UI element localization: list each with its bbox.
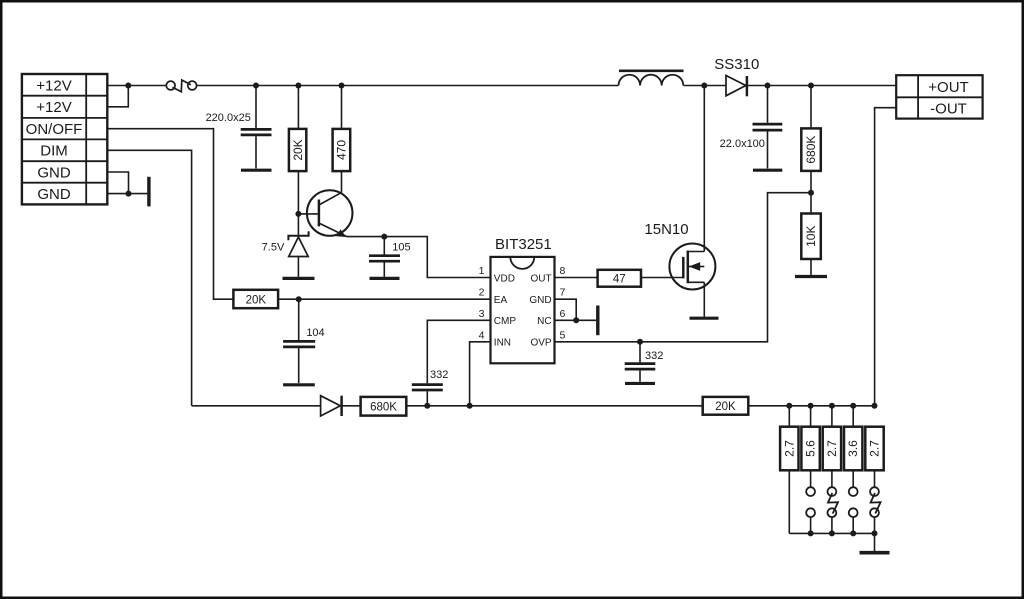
svg-text:4: 4 [479,329,485,341]
capacitor C1 220.0x25 [241,86,272,169]
svg-text:6: 6 [560,308,566,320]
node C7 junction [424,403,430,409]
svg-text:47: 47 [613,274,626,286]
resistor R13 3.6 [844,406,862,487]
wire ON/OFF to R4 [107,129,233,300]
node divider junction [808,190,814,196]
resistor R2 20K [289,86,306,214]
resistor R3 470 [333,86,351,193]
svg-text:8: 8 [560,265,566,277]
svg-text:DIM: DIM [40,143,68,160]
wire INN pin 4 [470,342,491,406]
node GND junction [126,191,132,197]
J1 pin labels [26,77,83,203]
wire bank bottom bus [789,532,874,534]
wire OUT pin 8 to gate [555,277,598,279]
svg-text:680K: 680K [804,136,818,164]
op-amp U1 BIT3251 body [491,236,555,363]
capacitor C5 22.0x100 [753,86,783,169]
svg-text:GND: GND [37,164,71,181]
U1 pin numbers right [560,265,566,341]
svg-text:15N10: 15N10 [644,221,688,238]
ground C5 [753,169,782,172]
node OVP junction [637,339,643,345]
diode D2 SS310 [704,76,896,97]
wire bottom net right [748,405,874,407]
capacitor C3 105 [369,237,400,277]
svg-text:7: 7 [560,287,566,299]
resistor R12 2.7 [823,406,841,487]
svg-text:2.7: 2.7 [868,440,882,457]
ground bank [860,551,890,555]
ground C1 [241,169,272,172]
svg-text:105: 105 [392,242,410,254]
svg-text:OUT: OUT [530,273,551,284]
connector J2 output [896,75,982,118]
node top rail R6 [808,83,814,89]
resistor R11 5.6 [801,406,819,487]
svg-text:SS310: SS310 [714,56,759,73]
svg-text:5: 5 [560,329,566,341]
wire bottom net left [192,405,321,407]
svg-text:+OUT: +OUT [928,79,968,96]
node top rail R3 [339,83,345,89]
wire +12V second pin link [107,86,128,107]
svg-text:3.6: 3.6 [846,440,860,457]
svg-text:BIT3251: BIT3251 [495,236,552,253]
jumper J6 closed [870,487,881,517]
svg-text:+12V: +12V [36,77,71,94]
node NC junction [573,317,579,323]
svg-text:20K: 20K [715,401,736,413]
node Q1 base junction [295,211,301,217]
ground R7 [795,275,827,278]
connector J1 input [22,74,107,204]
jumper J3 open [806,487,815,517]
resistor R6 680K [801,86,821,214]
svg-text:INN: INN [494,338,511,349]
svg-text:1: 1 [479,265,485,277]
U1 pin labels left [494,273,517,348]
ground C6 [625,382,655,385]
jumper J5 open [849,487,858,517]
resistor R5 47 [598,270,641,287]
transistor Q1 [298,190,352,237]
svg-text:10K: 10K [804,226,818,247]
node top rail C1 [253,83,259,89]
node C5 junction [765,83,771,89]
resistor R10 2.7 [780,406,798,534]
wire bank ground stub [874,533,876,551]
svg-text:20K: 20K [246,295,267,307]
wire +12V top rail [107,85,704,87]
svg-text:2: 2 [479,287,485,299]
wire DIM to bottom net [107,150,191,405]
inductor L1 [619,71,684,86]
wire bottom net middle [406,405,702,407]
node bank junctions bottom [808,530,878,536]
node bank junctions top [786,403,877,409]
svg-text:680K: 680K [370,402,397,414]
svg-text:CMP: CMP [494,316,517,327]
node drain junction [701,83,707,89]
svg-text:332: 332 [645,350,663,362]
svg-text:VDD: VDD [494,273,515,284]
ground C3 [370,277,400,280]
capacitor C6 332 [625,342,656,382]
node EA junction [296,296,302,302]
wire Q1 emitter to VDD [347,237,491,278]
svg-text:20K: 20K [291,139,305,160]
svg-text:470: 470 [335,140,349,160]
zener D1 7.5V [288,214,308,277]
node C3 junction [381,234,387,240]
wire OVP pin 5 [555,193,812,342]
ground D1 [283,277,315,280]
node +12V junction [125,83,131,89]
svg-text:2.7: 2.7 [782,440,796,457]
wire CMP pin 3 to C7 [427,320,490,383]
node INN junction [467,403,473,409]
U1 pin numbers left [479,265,485,341]
svg-text:+12V: +12V [36,99,71,116]
fuse F1 [166,80,196,92]
resistor R9 20K [703,397,749,415]
ground C4 [283,383,315,386]
svg-text:22.0x100: 22.0x100 [720,138,765,150]
resistor R7 10K [801,214,821,275]
svg-text:OVP: OVP [530,338,551,349]
svg-text:GND: GND [529,295,551,306]
wire GND pin 7 [555,299,577,320]
capacitor C4 104 [283,299,315,383]
svg-text:NC: NC [537,316,551,327]
wire EA pin 2 [278,298,490,300]
resistor R14 2.7 [865,427,883,488]
capacitor C7 332 [412,385,443,406]
node top rail R2 [295,83,301,89]
svg-text:ON/OFF: ON/OFF [26,121,83,138]
resistor R4 20K [233,290,278,308]
svg-text:-OUT: -OUT [930,100,967,117]
J2 pin labels [928,79,968,118]
transistor Q2 15N10 [669,86,715,317]
svg-text:5.6: 5.6 [804,440,818,457]
ground Q2 source [690,317,719,320]
svg-text:GND: GND [37,186,71,203]
svg-text:EA: EA [494,295,508,306]
wire NC pin 6 [555,319,597,321]
svg-text:7.5V: 7.5V [262,241,285,253]
svg-text:220.0x25: 220.0x25 [206,112,251,124]
svg-text:3: 3 [479,308,485,320]
wire -OUT [875,108,897,406]
ground input [147,177,150,207]
wire GND pins [107,172,147,194]
ground NC termination [596,306,599,336]
svg-text:2.7: 2.7 [825,440,839,457]
resistor R8 680K [361,397,407,416]
jumper J4 closed [828,487,839,517]
svg-text:332: 332 [430,369,448,381]
U1 pin labels right [529,273,552,348]
svg-text:104: 104 [306,327,324,339]
diode D3 [321,396,361,416]
